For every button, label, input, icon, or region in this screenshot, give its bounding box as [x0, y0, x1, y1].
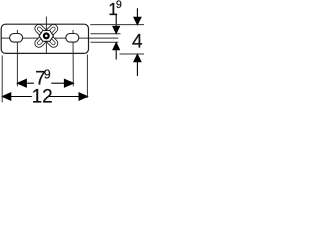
svg-text:9: 9 — [116, 0, 122, 11]
lobe NW — [33, 23, 48, 38]
extension line: plate bottom, far right — [120, 53, 145, 55]
nut ring (black donut) — [43, 32, 50, 39]
extension line: plate top edge, right side — [90, 24, 144, 26]
extension line: slot bottom, right side — [91, 41, 119, 43]
background — [0, 0, 144, 109]
fastener wing lobes — [33, 23, 59, 49]
hex nut — [39, 31, 53, 42]
extension line: left edge for 12 — [1, 56, 3, 103]
extension line: right end for 12 — [86, 55, 88, 99]
centerline of right slot (vertical) — [72, 30, 74, 86]
lobe SE — [45, 34, 60, 49]
svg-text:12: 12 — [32, 86, 53, 107]
dimension 4 arrows (outside) — [134, 8, 141, 76]
lobe SW — [33, 34, 48, 49]
centerline of left slot (vertical) — [16, 30, 18, 86]
svg-text:4: 4 — [132, 32, 143, 53]
lobe NE — [45, 23, 60, 38]
left slot — [10, 34, 23, 43]
right slot — [66, 34, 79, 43]
dimension 1.9 arrows (outside) — [113, 14, 120, 60]
extension line: slot top, right side — [91, 33, 121, 35]
dimension line 12 with arrows — [2, 93, 87, 100]
centerline of fastener (vertical) — [45, 17, 47, 53]
horizontal centerline through plate, extended right — [1, 37, 119, 39]
svg-text:9: 9 — [44, 68, 51, 82]
plate outline — [1, 24, 88, 53]
dimension line 7.9 with arrows — [17, 79, 73, 87]
